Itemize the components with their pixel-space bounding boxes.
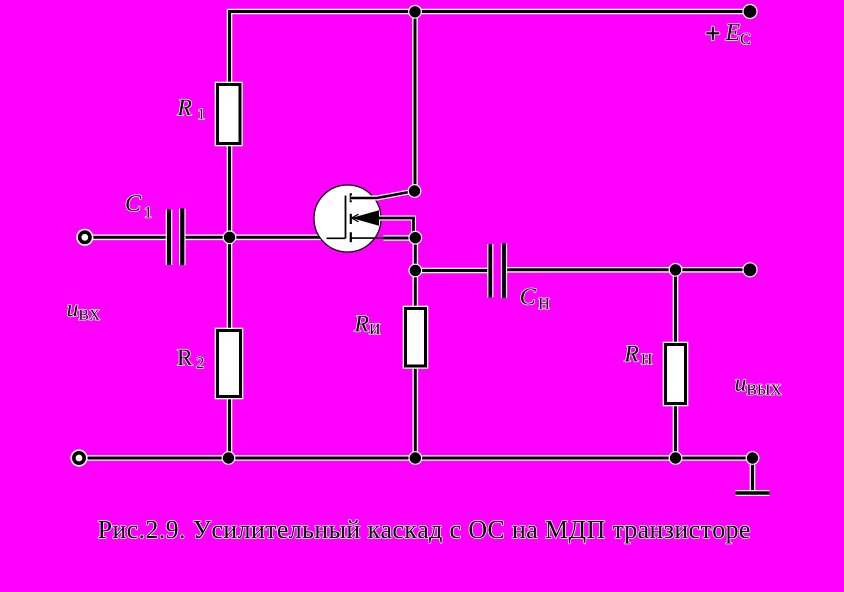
- terminal +Ec filled dot at right end of top rail: [742, 4, 757, 19]
- wire C1 to gate lead: [184, 235, 328, 241]
- label u_vyx: [736, 380, 782, 395]
- terminal input open circle top left: [76, 229, 93, 246]
- wire output node down to Ri: [412, 271, 418, 311]
- transistor VT1 MOSFET body circle: [314, 185, 381, 252]
- wire substrate lead bending down to source node: [379, 218, 414, 236]
- capacitor C1: [169, 209, 182, 266]
- caption: [98, 520, 749, 543]
- resistor R2: [218, 331, 241, 397]
- wire drain vertical to top rail: [412, 12, 418, 192]
- wire source lead thin part: [351, 237, 384, 239]
- transistor VT1 drain lead: [351, 191, 415, 198]
- label C1: [126, 195, 151, 217]
- resistor Rn: [666, 345, 686, 404]
- terminal output filled dot at right end: [742, 262, 757, 277]
- resistor R1: [218, 85, 241, 144]
- node ground rail earth: [746, 451, 760, 465]
- wire output node to Cn: [415, 268, 489, 274]
- node drain connection: [408, 184, 422, 198]
- terminal input common open circle bottom left: [70, 449, 87, 466]
- node source junction: [408, 231, 422, 245]
- node ground rail Rn: [669, 451, 683, 465]
- wire input lead to C1: [91, 235, 168, 241]
- wire top supply rail with corner down to R1: [230, 12, 751, 86]
- capacitor Cn: [490, 244, 504, 299]
- node on top rail above drain: [408, 5, 422, 19]
- resistor Ri: [406, 309, 426, 367]
- node gate divider junction: [223, 230, 237, 244]
- wire Cn to output terminal: [506, 267, 751, 273]
- node above Rn: [669, 263, 683, 277]
- transistor VT1 gate lead thin part inside circle: [327, 237, 346, 239]
- label Rn: [624, 346, 652, 365]
- label Ri: [354, 316, 380, 335]
- label +Ec: [706, 24, 750, 44]
- node ground rail divider: [222, 451, 236, 465]
- wire R2 bottom to ground rail: [227, 396, 233, 458]
- wire node down to Rn: [673, 270, 679, 346]
- transistor VT1 channel dashes: [350, 193, 352, 242]
- label R1: [177, 100, 204, 120]
- label Cn: [521, 288, 549, 308]
- wire R1 bottom to gate node: [227, 143, 233, 238]
- wire Rn bottom to ground rail: [673, 403, 679, 458]
- transistor VT1 small arrowhead lines at triangle tip: [352, 214, 359, 222]
- node ground rail Ri: [408, 451, 422, 465]
- transistor VT1 gate electrode: [345, 196, 347, 239]
- node output tap: [408, 264, 422, 278]
- wire ground rail: [85, 455, 753, 461]
- wire gate node down to R2: [227, 236, 233, 331]
- transistor VT1 substrate arrow triangle: [352, 210, 380, 226]
- label R2: [178, 350, 204, 368]
- wire source lead thick part: [384, 235, 416, 241]
- wire Ri bottom to ground rail: [412, 365, 418, 458]
- ground symbol: [736, 458, 770, 493]
- wire source junction down to output node: [412, 238, 418, 271]
- label u_vx: [68, 305, 100, 320]
